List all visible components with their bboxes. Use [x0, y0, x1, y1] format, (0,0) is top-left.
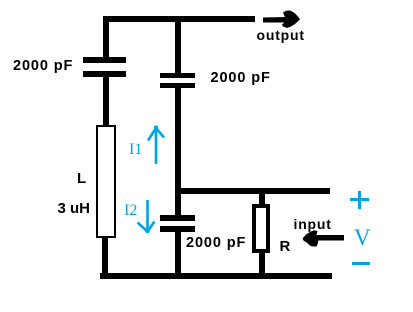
wire: stub from resistor R down to bottom wire [259, 253, 265, 273]
label: 2000 pF (bottom capacitor) [186, 236, 246, 251]
label: 2000 pF (left capacitor) [13, 59, 73, 74]
label: 2000 pF (middle capacitor) [211, 71, 271, 86]
wire: middle horizontal rail to resistor branch [175, 188, 330, 194]
capacitor C (2000 pF, left) bottom plate [83, 71, 126, 77]
inductor L (rectangle body) [96, 125, 116, 238]
input arrow (black, pointing left) [303, 230, 345, 246]
capacitor C3 (2000 pF, middle bottom) bottom plate [160, 226, 195, 232]
plus sign (+ terminal, cyan) horizontal bar [350, 198, 369, 201]
wire: left vertical, C1 to inductor [103, 77, 109, 126]
wire: middle vertical, mid rail to C3 [175, 194, 181, 215]
wire: top horizontal (node output) [103, 16, 255, 22]
capacitor C3 (2000 pF, middle bottom) top plate [160, 215, 195, 221]
wire: middle vertical, C3 to bottom wire [175, 232, 181, 279]
wire: middle vertical, C2 to mid rail [175, 88, 181, 194]
minus sign (- terminal, cyan) [352, 262, 370, 265]
label: I2 (cyan) [124, 203, 137, 219]
plus sign (+ terminal, cyan) vertical bar [358, 191, 361, 209]
wire: middle vertical, top wire to C2 [175, 16, 181, 73]
label: L [77, 171, 86, 186]
wire: left vertical, inductor to bottom wire [102, 238, 108, 279]
label: 3 uH [58, 201, 91, 216]
output arrow (black, pointing right) [263, 11, 300, 29]
capacitor C (2000 pF, left) top plate [83, 57, 126, 63]
current arrow I2 (cyan, pointing down) [138, 200, 155, 233]
resistor R (rectangle body) [252, 204, 270, 253]
capacitor C2 (2000 pF, middle top) bottom plate [160, 83, 195, 88]
capacitor C2 (2000 pF, middle top) top plate [160, 73, 195, 78]
label: I1 (cyan) [129, 142, 142, 158]
wire: bottom horizontal (ground rail) [100, 273, 332, 279]
label: V (cyan) [354, 226, 371, 249]
wire: left vertical, top wire to C1 [103, 16, 109, 57]
label: R [280, 239, 291, 254]
label: output [257, 28, 305, 42]
label: input [294, 217, 332, 231]
current arrow I1 (cyan, pointing up) [148, 126, 164, 165]
wire: stub from mid rail down to resistor R [259, 194, 265, 204]
